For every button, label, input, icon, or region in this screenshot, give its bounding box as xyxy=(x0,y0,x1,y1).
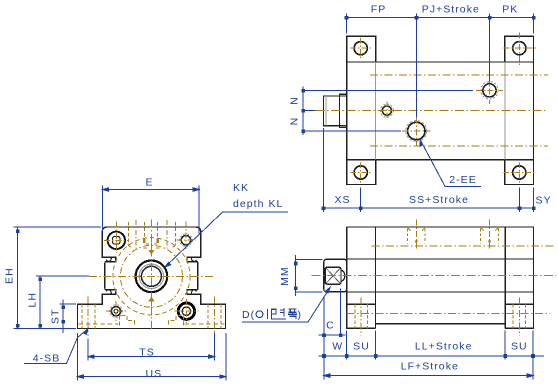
hidden port walls (left) xyxy=(408,229,426,244)
rod boss (top view) xyxy=(324,96,347,126)
dimension EH xyxy=(14,227,102,329)
svg-text:US: US xyxy=(145,368,162,380)
bolt circle (dash-dot) xyxy=(120,245,182,307)
svg-text:EH: EH xyxy=(4,267,16,284)
port hole top face xyxy=(483,84,496,97)
rod centerline xyxy=(312,274,557,276)
dimension XS / SS+Stroke / SY xyxy=(322,128,536,212)
svg-text:W: W xyxy=(332,340,343,352)
svg-text:SS+Stroke: SS+Stroke xyxy=(409,194,469,206)
svg-text:): ) xyxy=(298,309,303,321)
top view main centerline xyxy=(316,110,549,112)
ear top-left xyxy=(347,36,376,62)
hangul 이 xyxy=(256,311,263,318)
front view horizontal centerline xyxy=(89,275,215,277)
right foot hidden bolt xyxy=(513,304,525,328)
ear hole BL xyxy=(354,166,367,179)
svg-text:SU: SU xyxy=(353,340,370,352)
left foot bolt hidden walls xyxy=(82,304,95,328)
hidden line x175 with curl xyxy=(174,222,176,244)
hole BR crosshair xyxy=(175,299,199,323)
svg-text:SY: SY xyxy=(536,194,552,206)
dimension C xyxy=(319,289,346,380)
dimension LH xyxy=(36,276,89,329)
center bore gray circle xyxy=(139,264,163,288)
rod collar xyxy=(340,94,347,127)
port centerline right (top face) xyxy=(166,220,168,250)
svg-text:C: C xyxy=(326,320,335,332)
ear hole TR xyxy=(513,42,526,55)
svg-text:TS: TS xyxy=(139,347,155,359)
svg-text:PJ+Stroke: PJ+Stroke xyxy=(422,4,480,16)
dimension TS xyxy=(88,333,214,361)
tangent gray lines xyxy=(376,62,505,160)
svg-text:PK: PK xyxy=(502,4,518,16)
svg-text:XS: XS xyxy=(334,194,350,206)
svg-text:LH: LH xyxy=(26,292,38,308)
hidden port walls (right) xyxy=(481,229,499,244)
left foot hidden bolt xyxy=(355,304,367,328)
center bore outer circle xyxy=(136,261,168,293)
ear hole BR xyxy=(513,166,526,179)
hidden line x157.7 xyxy=(157,222,159,239)
svg-text:E: E xyxy=(145,176,153,188)
rod block left edge xyxy=(504,227,506,328)
dimension LF+Stroke xyxy=(324,331,533,380)
ear hole TL xyxy=(354,42,367,55)
left slot top lip hook xyxy=(106,257,111,261)
right slot top lip hook xyxy=(192,257,197,261)
dimension E xyxy=(103,186,200,234)
dimension W SU LL+Stroke SU xyxy=(319,331,545,360)
rod end gray line xyxy=(325,96,327,126)
right block foot xyxy=(505,292,533,328)
dimension US xyxy=(78,333,226,380)
svg-text:FP: FP xyxy=(371,4,387,16)
center arrow up xyxy=(149,297,153,306)
svg-text:LL+Stroke: LL+Stroke xyxy=(415,340,473,352)
foot bolt centerline horizontal xyxy=(347,313,550,315)
ear top-right xyxy=(505,36,534,62)
flange hidden bottom line left xyxy=(79,323,119,325)
left block foot xyxy=(347,292,376,328)
tube top chamfer line xyxy=(347,258,534,260)
tube bottom chamfer line xyxy=(347,291,534,293)
hangul 폭 xyxy=(288,309,297,319)
hidden line x128 with curl xyxy=(127,222,129,244)
svg-text:MM: MM xyxy=(279,266,291,286)
hidden line x144 xyxy=(143,222,145,239)
rod boss outer (side view) xyxy=(324,259,347,292)
front view body outline with sensor slots and base flange xyxy=(78,227,226,329)
left foot bolt centerline xyxy=(87,297,89,337)
hole TL counterbore xyxy=(108,232,125,249)
dimension N N xyxy=(301,87,473,136)
2-EE hole xyxy=(408,122,425,139)
small hole xyxy=(382,106,391,115)
head block right edge xyxy=(374,227,376,328)
rod nut arc xyxy=(341,270,345,282)
right foot bolt hidden walls xyxy=(208,304,221,328)
svg-text:4-SB: 4-SB xyxy=(33,352,61,364)
wrench flats X xyxy=(326,268,340,283)
flange hidden bottom line right xyxy=(184,323,224,325)
svg-text:D(: D( xyxy=(242,309,255,321)
svg-text:N: N xyxy=(289,96,301,105)
center arrow down xyxy=(149,243,153,254)
hole TL crosshair xyxy=(104,222,129,254)
svg-text:LF+Stroke: LF+Stroke xyxy=(401,360,459,372)
right slot bottom lip hook xyxy=(192,290,197,294)
top view centerline upper xyxy=(370,74,548,76)
front view vertical centerline xyxy=(150,220,152,332)
top view centerline lower xyxy=(370,145,548,147)
svg-text:2-EE: 2-EE xyxy=(449,174,477,186)
hole BL xyxy=(110,305,123,318)
ear bottom-right xyxy=(505,160,534,185)
ear bottom-left xyxy=(347,160,376,185)
left slot bottom lip hook xyxy=(106,290,111,294)
port centerline right xyxy=(489,220,491,249)
dimension FP / PJ+Stroke / PK xyxy=(345,14,536,117)
right foot bolt centerline xyxy=(214,297,216,337)
port centerline left (top face) xyxy=(135,220,137,250)
svg-text:KK: KK xyxy=(233,182,249,194)
hangul 면 xyxy=(272,309,277,314)
hole BR bold xyxy=(178,303,194,319)
center bore inner circle xyxy=(141,266,161,286)
upper sensor centerline xyxy=(372,245,557,247)
side view outline xyxy=(347,227,534,328)
flange hidden channel S right xyxy=(168,316,183,326)
svg-text:ST: ST xyxy=(49,309,61,325)
dimension MM xyxy=(294,255,323,296)
svg-text:SU: SU xyxy=(511,340,528,352)
svg-text:N: N xyxy=(289,117,301,126)
rod wrench flats box xyxy=(325,267,341,284)
hole TR crosshair xyxy=(177,222,196,251)
hole BL crosshair xyxy=(106,301,126,321)
tube hidden circle (dashed) xyxy=(113,238,190,315)
hole TR xyxy=(180,234,193,247)
top view body xyxy=(347,62,534,160)
flange hidden channel S left xyxy=(119,316,134,326)
port centerline left xyxy=(415,220,417,249)
svg-text:depth KL: depth KL xyxy=(233,198,283,210)
dimension ST xyxy=(60,300,77,334)
